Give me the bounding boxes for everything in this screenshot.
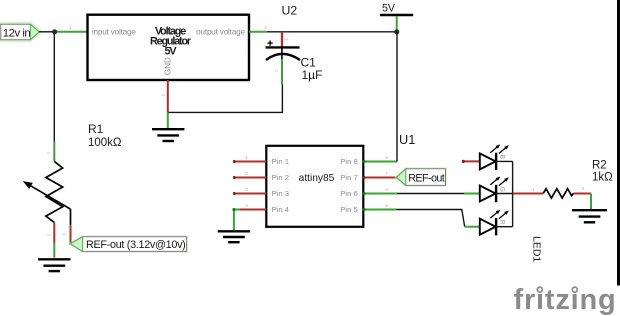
LED1 red element emission arrows bbox=[490, 210, 509, 219]
voltage regulator U2 box bbox=[88, 15, 250, 80]
U1 pin 7 leg (red) bbox=[363, 177, 396, 179]
LED1 green element anode leg (green) bbox=[464, 193, 480, 195]
svg-text:2: 2 bbox=[582, 186, 585, 191]
svg-text:1: 1 bbox=[46, 151, 51, 154]
attiny85 U1 box bbox=[266, 146, 363, 227]
image right border bar bbox=[617, 0, 620, 286]
wire U1 pin6 to LED green anode bbox=[397, 193, 464, 195]
junction node 5V rail bbox=[394, 29, 399, 34]
svg-text:input voltage: input voltage bbox=[92, 27, 136, 36]
R2 right leg (red) bbox=[573, 193, 591, 195]
potentiometer R1 top leg (green) bbox=[53, 142, 55, 162]
wire cathode bus bbox=[512, 161, 514, 226]
potentiometer R1 wiper stem bbox=[70, 209, 72, 225]
capacitor C1 center stem bbox=[281, 48, 283, 60]
wire U2 output to 5V junction bbox=[267, 31, 397, 33]
svg-text:U2: U2 bbox=[282, 4, 298, 18]
svg-text:output voltage: output voltage bbox=[196, 27, 245, 36]
svg-text:Pin 7: Pin 7 bbox=[340, 173, 358, 182]
svg-text:Pin 4: Pin 4 bbox=[272, 205, 290, 214]
wire LED red cathode to bus bbox=[496, 226, 512, 228]
R1 bottom to ground (green) bbox=[53, 243, 55, 258]
resistor R2 zigzag bbox=[543, 189, 573, 198]
svg-text:100kΩ: 100kΩ bbox=[88, 137, 122, 149]
svg-text:Pin 8: Pin 8 bbox=[340, 157, 358, 166]
wire LED green cathode to bus bbox=[496, 193, 512, 195]
U1 pin 3 leg (red) bbox=[234, 193, 267, 195]
R1 bottom leg (red) bbox=[53, 223, 55, 244]
svg-text:2: 2 bbox=[274, 69, 279, 72]
U1 pin 6 leg (green) bbox=[363, 193, 397, 195]
svg-text:1kΩ: 1kΩ bbox=[592, 172, 613, 184]
svg-text:fritzing: fritzing bbox=[514, 284, 617, 316]
svg-text:12v in: 12v in bbox=[3, 27, 31, 39]
svg-text:R1: R1 bbox=[88, 122, 104, 136]
capacitor C1 top leg (red) bbox=[281, 32, 283, 47]
svg-text:3: 3 bbox=[245, 187, 248, 192]
svg-text:2: 2 bbox=[47, 233, 52, 236]
wire U1 pin4 to ground (green) bbox=[234, 210, 240, 231]
svg-text:R: R bbox=[498, 220, 505, 225]
junction node A (12v rail) bbox=[52, 29, 57, 34]
R2 to ground (green) bbox=[590, 194, 592, 210]
U2 output pin leg (green) bbox=[249, 31, 267, 33]
LED1 blue element emission arrows bbox=[490, 144, 509, 153]
svg-text:5: 5 bbox=[385, 203, 388, 208]
net flag 12v in bbox=[0, 22, 43, 42]
fritzing logo i-dot rings bbox=[537, 284, 579, 294]
wire LED blue cathode to bus bbox=[496, 160, 512, 162]
capacitor C1 bottom leg (green) bbox=[281, 59, 283, 85]
LED1 red element anode leg (green) bbox=[465, 226, 480, 228]
U1 pin 2 leg (red) bbox=[234, 177, 267, 179]
svg-text:2: 2 bbox=[161, 93, 166, 96]
R1 wiper leg (red) bbox=[70, 225, 72, 243]
wire bus to R2 (red leg) bbox=[513, 193, 544, 195]
U1 pin 1 leg (red) bbox=[234, 161, 267, 163]
U2 GND pin leg (red) bbox=[167, 80, 169, 112]
capacitor C1 top plate bbox=[266, 46, 300, 48]
wire U1 pin8 up to 5V rail bbox=[396, 32, 398, 162]
C1 plus sign bbox=[268, 41, 273, 46]
LED1 blue element anode leg (red, unconnected) bbox=[463, 160, 480, 162]
potentiometer R1 wiper arrow bbox=[23, 181, 71, 209]
terminal dots on U1 legs bbox=[232, 160, 365, 211]
svg-text:2: 2 bbox=[245, 171, 248, 176]
svg-text:B: B bbox=[498, 155, 505, 159]
wire GND node to C1 bottom bbox=[168, 85, 283, 113]
svg-text:4: 4 bbox=[245, 203, 248, 208]
svg-text:Pin 3: Pin 3 bbox=[272, 189, 290, 198]
wire 12v rail down to R1 bbox=[53, 34, 55, 142]
wire junction to U2 input pin (green) bbox=[55, 31, 88, 33]
ground symbol under U1 pin4 bbox=[218, 231, 250, 242]
wire U1 pin5 to LED red anode bbox=[397, 210, 465, 227]
svg-text:1: 1 bbox=[284, 38, 289, 41]
svg-text:8: 8 bbox=[385, 155, 388, 160]
U1 pin 5 leg (green) bbox=[363, 209, 396, 211]
ground symbol under R1 bbox=[38, 259, 70, 271]
LED1 green element symbol bbox=[480, 185, 496, 202]
svg-text:C1: C1 bbox=[301, 55, 317, 69]
svg-text:1: 1 bbox=[69, 25, 72, 30]
svg-text:R2: R2 bbox=[592, 159, 607, 171]
svg-text:Pin 6: Pin 6 bbox=[340, 189, 358, 198]
U1 pin 8 leg (green) bbox=[363, 161, 397, 163]
svg-text:3: 3 bbox=[264, 25, 267, 30]
svg-text:1: 1 bbox=[532, 187, 535, 192]
svg-text:3: 3 bbox=[62, 233, 67, 236]
5V supply symbol bbox=[380, 3, 413, 32]
svg-text:1: 1 bbox=[245, 155, 248, 160]
svg-text:5V: 5V bbox=[382, 3, 396, 15]
svg-text:1µF: 1µF bbox=[302, 68, 323, 82]
ground symbol under R2 bbox=[572, 210, 607, 222]
svg-text:G: G bbox=[498, 187, 505, 192]
svg-text:U1: U1 bbox=[399, 132, 415, 147]
LED1 red element symbol bbox=[480, 218, 496, 235]
svg-text:REF-out (3.12v@10v): REF-out (3.12v@10v) bbox=[86, 239, 185, 251]
net flag REF-out (3.12v@10v) bbox=[68, 235, 188, 253]
svg-text:Pin 2: Pin 2 bbox=[272, 173, 290, 182]
svg-text:LED1: LED1 bbox=[531, 236, 543, 262]
svg-text:REF-out: REF-out bbox=[408, 172, 445, 184]
svg-text:attiny85: attiny85 bbox=[299, 173, 335, 184]
net flag REF-out bbox=[394, 167, 447, 187]
svg-text:Pin 1: Pin 1 bbox=[272, 157, 290, 166]
U1 pin 4 leg (red) bbox=[239, 209, 266, 211]
ground symbol under U2 bbox=[152, 112, 184, 141]
potentiometer R1 zigzag body bbox=[46, 161, 63, 222]
capacitor C1 curved plate bbox=[266, 54, 300, 60]
svg-text:6: 6 bbox=[385, 187, 388, 192]
LED1 blue element symbol bbox=[480, 153, 496, 170]
wire flag to junction bbox=[39, 31, 55, 33]
svg-text:Pin 5: Pin 5 bbox=[340, 205, 358, 214]
LED1 green element emission arrows bbox=[490, 177, 509, 186]
svg-text:7: 7 bbox=[385, 171, 388, 176]
svg-text:GND: GND bbox=[163, 57, 172, 75]
